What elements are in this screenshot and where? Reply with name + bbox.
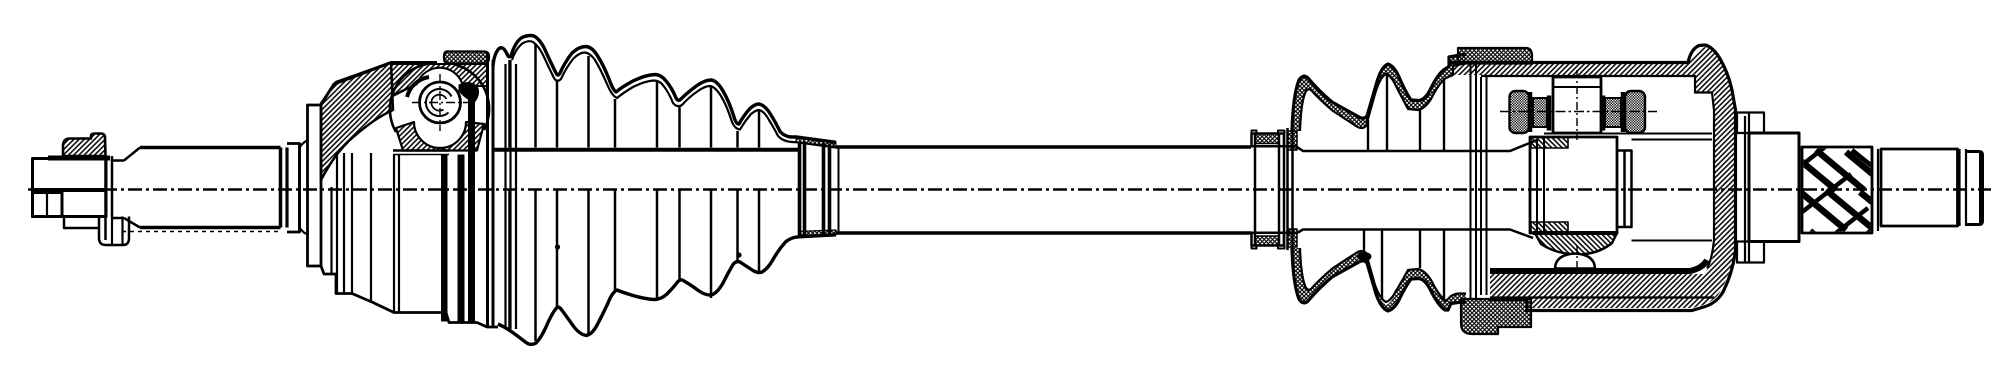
- roller left inner: [1533, 98, 1547, 127]
- inner CV joint group: [321, 63, 489, 313]
- shaft under clamp: [1251, 146, 1297, 233]
- stub tip inner line: [46, 193, 48, 217]
- right boot small clamp group: [1251, 126, 1297, 252]
- boot clamp band hatched: [444, 52, 489, 64]
- right CV joint housing group: [1448, 45, 1736, 334]
- clamp outer profile: [1252, 134, 1285, 246]
- lower block inner lines: [111, 217, 113, 246]
- tripod axis dashdot: [1500, 111, 1657, 113]
- stub tip box: [33, 193, 63, 217]
- joint body verticals: [332, 153, 400, 312]
- roller left outer: [1510, 91, 1530, 133]
- boot neck hatched flat bottom: [799, 230, 836, 237]
- ball crosshair: [412, 74, 468, 131]
- housing hatched wedge: [321, 63, 393, 181]
- left stub shaft group: [33, 134, 141, 246]
- bottom inner shell line: [1490, 296, 1714, 298]
- ball inner circle: [431, 95, 446, 111]
- top wall hatch: [1452, 47, 1734, 308]
- roller right inner: [1605, 98, 1621, 127]
- roller separator bars: [1530, 92, 1623, 132]
- right output shaft group: [1737, 113, 1983, 264]
- spline end verticals: [1872, 147, 1878, 233]
- back disc: [308, 105, 322, 266]
- stub lower step: [64, 217, 99, 229]
- stub mid line: [33, 188, 107, 192]
- right boot top outer: [1292, 54, 1466, 131]
- hub spline hatch top: [1531, 137, 1568, 148]
- cup axis dashdot: [1576, 246, 1578, 272]
- roller right outer: [1625, 91, 1645, 133]
- collar block: [1749, 133, 1799, 242]
- clamp hatched band top: [1255, 134, 1279, 144]
- washer bar: [104, 156, 107, 240]
- hub bottom thick edge: [1533, 231, 1617, 235]
- line under nut: [48, 156, 110, 161]
- ring bump bottom: [300, 228, 308, 235]
- hub right cylinder: [1617, 151, 1632, 228]
- taper to cylinder: [124, 148, 140, 228]
- clamp end bumps: [1252, 131, 1285, 249]
- hub left edge lines: [1537, 137, 1544, 233]
- cylinder right cap: [285, 148, 288, 228]
- neck walls: [1288, 126, 1293, 252]
- boot bottom wave: [498, 235, 836, 345]
- boot wall lines: [488, 53, 494, 327]
- hub right area lines: [1544, 134, 1712, 241]
- outer race hatched band: [391, 64, 487, 96]
- boot cut wall 3: [469, 84, 475, 322]
- shaft left cap line: [838, 147, 840, 233]
- right boot bottom outer: [1292, 248, 1466, 311]
- boot cut wall 2: [458, 155, 464, 322]
- joint bottom steps under boot: [446, 313, 498, 328]
- joint bottom outline: [321, 266, 446, 313]
- snap ring groove: [1960, 149, 1967, 226]
- cylinder body: [140, 148, 281, 228]
- smooth section: [1881, 149, 1958, 226]
- tripod post: [1553, 77, 1601, 133]
- big clamp bottom hatched: [1461, 299, 1531, 334]
- race edge arc left of ball: [407, 77, 429, 97]
- cage arc around ball: [390, 64, 427, 132]
- boot right clamp band: [800, 142, 830, 236]
- clamp verticals: [1255, 134, 1284, 246]
- cup hatched: [1535, 233, 1617, 255]
- hub second line: [393, 154, 449, 156]
- thread nut hatched: [63, 134, 106, 157]
- boot fold hook dots: [555, 244, 742, 257]
- spline knurl marks: [1783, 143, 1888, 258]
- end cap right edge: [1979, 153, 1983, 223]
- tripod hub: [1530, 137, 1617, 233]
- boot top fold verticals: [510, 44, 760, 148]
- housing outer top outline: [321, 63, 437, 105]
- centerline: [28, 188, 1991, 190]
- boot neck hatched flat top: [796, 137, 836, 148]
- shaft step through boot: [1297, 147, 1476, 233]
- spline section outline: [1802, 147, 1872, 233]
- stub lower block: [99, 217, 129, 246]
- right boot top inner: [1300, 63, 1466, 131]
- clamp hatched band bottom: [1255, 236, 1279, 246]
- boot bottom fold verticals: [510, 191, 760, 342]
- boot top inner wave: [512, 41, 836, 147]
- bottom wall hatch: [1490, 240, 1714, 297]
- inner bottom thick line: [1490, 260, 1707, 271]
- ring: [287, 144, 300, 233]
- left boot group: [442, 36, 837, 345]
- right boot tube hatch bottom: [1292, 248, 1466, 311]
- shaft into joint: [1476, 140, 1537, 238]
- shaft top edge: [836, 145, 1251, 149]
- stub main body: [33, 159, 107, 217]
- cylinder hidden dashed bottom: [122, 231, 282, 233]
- center shaft: [836, 147, 1251, 233]
- collar tab top: [1737, 113, 1764, 134]
- big clamp top hatched: [1458, 48, 1532, 64]
- ball under cup: [1555, 254, 1595, 269]
- shaft end cap: [1967, 152, 1983, 225]
- top wall inner line: [1481, 76, 1712, 93]
- neck bottom line: [112, 217, 124, 220]
- inner race hatched: [396, 122, 484, 151]
- collar tab bottom: [1737, 242, 1764, 263]
- right boot fold verticals top: [1368, 75, 1444, 151]
- right boot fold verticals bottom: [1364, 230, 1444, 301]
- post top line: [1553, 86, 1601, 88]
- post axis dashdot: [1576, 70, 1578, 140]
- boot top outer wave: [493, 36, 836, 143]
- housing top wall: [1448, 45, 1736, 311]
- ring bump top: [300, 141, 308, 148]
- race band bottom line: [391, 84, 417, 96]
- boot inner shelf line: [494, 148, 800, 152]
- cage wedge right of ball: [459, 83, 479, 103]
- housing left wall: [1471, 63, 1487, 299]
- right boot fold blob: [1358, 252, 1372, 261]
- neck top line: [112, 159, 124, 162]
- boot cut wall 1: [442, 155, 448, 321]
- snap bar: [1745, 113, 1749, 263]
- right boot group: [1292, 54, 1476, 311]
- shaft bottom edge: [836, 231, 1251, 235]
- ball middle circle: [426, 89, 452, 116]
- right boot tube hatch top: [1292, 54, 1466, 131]
- left cylinder group: [122, 105, 321, 266]
- ball bearing outer: [420, 82, 461, 123]
- right boot bottom inner: [1300, 248, 1466, 302]
- boot neck wall hatched: [1288, 131, 1298, 247]
- hub top line: [393, 149, 449, 152]
- inner wall right: [1707, 93, 1714, 269]
- hub spline hatch bottom: [1531, 222, 1568, 233]
